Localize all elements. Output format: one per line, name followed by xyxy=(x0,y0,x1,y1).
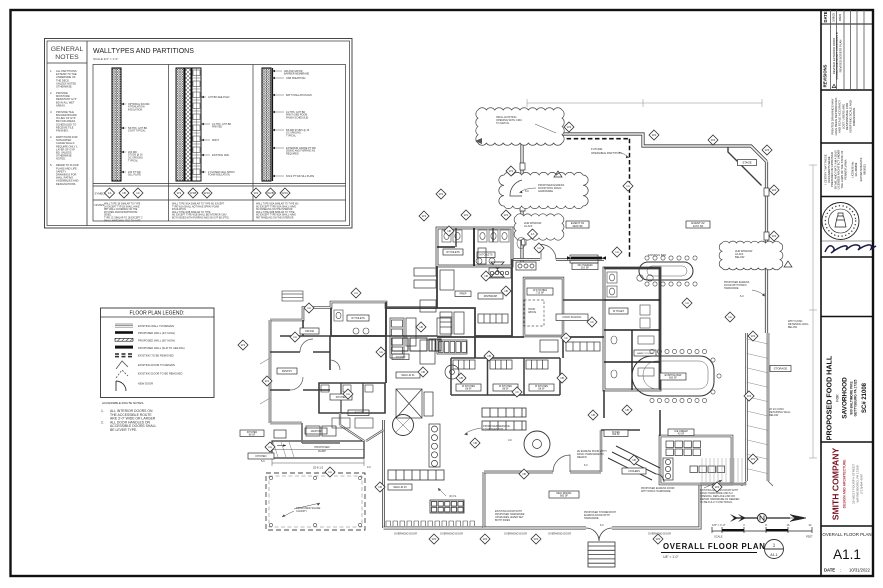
vestibule bowtie doors xyxy=(491,262,504,277)
svg-text:FINISH SCHEDULE): FINISH SCHEDULE) xyxy=(286,117,309,120)
svg-text:88 SF: 88 SF xyxy=(538,388,545,390)
svg-text:BATT INSULATION R20: BATT INSULATION R20 xyxy=(286,94,312,97)
svg-text:(3) F.S.: (3) F.S. xyxy=(449,495,457,498)
svg-text:W2B: W2B xyxy=(267,191,274,195)
svg-text:W2: W2 xyxy=(711,138,716,142)
svg-text:TYPICAL: TYPICAL xyxy=(286,135,297,138)
svg-text:3.: 3. xyxy=(50,110,52,114)
svg-text:PENNSYLVANIA: PENNSYLVANIA xyxy=(843,159,847,179)
svg-text:EXISTING CMU: EXISTING CMU xyxy=(212,154,230,157)
svg-text:PROPOSED WALL (44" HIGH): PROPOSED WALL (44" HIGH) xyxy=(138,331,175,335)
svg-text:1B: 1B xyxy=(504,289,508,293)
egress door note mid right xyxy=(724,281,750,290)
locker column xyxy=(429,424,440,467)
service counters center xyxy=(388,470,464,513)
hood dashed xyxy=(524,300,544,326)
center toilet block xyxy=(437,228,525,266)
svg-text:W2: W2 xyxy=(772,188,777,192)
exterior deck hatch xyxy=(702,458,742,482)
svg-text::: : xyxy=(840,568,841,573)
proposed ramp xyxy=(272,441,364,458)
svg-text:1A: 1A xyxy=(531,232,535,236)
svg-text:AREAS.: AREAS. xyxy=(56,103,66,107)
svg-text:1920 SF: 1920 SF xyxy=(572,224,583,228)
walkway east double wall xyxy=(745,333,748,481)
svg-text:6-0: 6-0 xyxy=(584,464,588,467)
legend: new door xyxy=(116,381,153,391)
svg-text:GYP BD SEE PLAN: GYP BD SEE PLAN xyxy=(208,96,230,99)
svg-text:1B: 1B xyxy=(473,441,477,445)
svg-text:SHALL HAVE WALL TILE TO 4 AFF: SHALL HAVE WALL TILE TO 4 AFF xyxy=(104,219,141,222)
heavy dashed existing wall line along north xyxy=(524,138,630,140)
service counters below stalls xyxy=(482,408,526,430)
svg-text:EXISTING BAR: EXISTING BAR xyxy=(648,253,666,257)
kitchen center walls xyxy=(386,266,437,308)
svg-text:PROPOSED WALL (FLR TO CEILIN: PROPOSED WALL (FLR TO CEILING) xyxy=(138,346,185,350)
wall type symbols row xyxy=(105,188,291,198)
west kitchen rooms xyxy=(302,423,340,443)
accessible route notes xyxy=(101,401,156,432)
svg-text:RAMP: RAMP xyxy=(318,449,326,453)
svg-text:6X1/2 PT WD SILL PLATE: 6X1/2 PT WD SILL PLATE xyxy=(286,175,315,178)
svg-text:BELOW: BELOW xyxy=(788,326,798,329)
wall tag diamonds xyxy=(238,122,779,544)
svg-text:1/8" = 1'-0": 1/8" = 1'-0" xyxy=(712,523,726,527)
svg-text:PANTRY: PANTRY xyxy=(282,369,293,373)
svg-text:RA-406859: RA-406859 xyxy=(854,162,858,176)
ice cream room xyxy=(660,410,732,484)
wall type detail A xyxy=(112,68,150,181)
svg-text:W1: W1 xyxy=(422,214,427,218)
svg-text:INSULATION: INSULATION xyxy=(128,109,142,112)
svg-text:713 SF: 713 SF xyxy=(536,292,545,295)
storefront double door xyxy=(586,528,612,541)
svg-text:EXISTING DOOR TO BE REMOVED: EXISTING DOOR TO BE REMOVED xyxy=(138,372,182,376)
kitchen stall block left xyxy=(319,383,385,413)
svg-text:SMITH COMPANY: SMITH COMPANY xyxy=(831,448,841,521)
certification note xyxy=(824,150,867,190)
svg-text:1A: 1A xyxy=(626,184,630,188)
svg-text:SAVORHOOD: SAVORHOOD xyxy=(842,377,849,419)
svg-text:4.: 4. xyxy=(50,135,52,139)
svg-text:WALLTYPES AND PARTITIONS: WALLTYPES AND PARTITIONS xyxy=(93,48,194,55)
svg-text:NO PANELING ON THE INTERIOR.: NO PANELING ON THE INTERIOR. xyxy=(256,208,293,211)
bottom wall with overhead doors xyxy=(384,527,587,530)
small fixtures center hall xyxy=(332,418,373,428)
svg-text:ACCESSIBLE ROUTE NOTES: ACCESSIBLE ROUTE NOTES xyxy=(102,401,143,405)
svg-text:1B: 1B xyxy=(122,191,126,195)
revision cloud: 2hr window below right xyxy=(719,241,783,270)
svg-text:FOR: FOR xyxy=(836,394,840,402)
svg-text:3/8/23: 3/8/23 xyxy=(838,13,842,21)
architect seal xyxy=(822,203,859,240)
future operable partition dashed xyxy=(629,139,631,259)
svg-text:1A: 1A xyxy=(685,301,689,305)
event labels xyxy=(566,221,589,228)
svg-text:BELOW: BELOW xyxy=(769,413,779,417)
svg-text:W1: W1 xyxy=(177,191,182,195)
svg-text:3-0: 3-0 xyxy=(508,438,512,442)
svg-text:88 SF: 88 SF xyxy=(502,388,509,390)
svg-text:2.: 2. xyxy=(101,420,104,424)
svg-text:FLOOR PLAN LEGEND:: FLOOR PLAN LEGEND: xyxy=(129,311,184,317)
svg-text:W1C: W1C xyxy=(204,191,212,195)
svg-text:OVERHEAD DOOR: OVERHEAD DOOR xyxy=(648,532,671,536)
svg-text:WALL TYPE 1B SIMILAR TO TYPE: WALL TYPE 1B SIMILAR TO TYPE xyxy=(104,203,141,206)
svg-text:BELOW: BELOW xyxy=(735,255,745,259)
svg-text:6-0: 6-0 xyxy=(740,295,744,298)
svg-text:NOTED.: NOTED. xyxy=(56,157,66,161)
stage xyxy=(728,147,762,186)
svg-text:BOTH SIDES: BOTH SIDES xyxy=(495,519,510,522)
floor plan legend box xyxy=(101,308,215,398)
kitchen equipment cluster B (center grid) xyxy=(437,318,467,379)
left block interior walls xyxy=(280,320,437,336)
svg-text:TO MATCH: TO MATCH xyxy=(496,121,509,125)
svg-text:600 SF: 600 SF xyxy=(560,495,569,498)
svg-text:W2: W2 xyxy=(751,334,756,338)
right toilet block xyxy=(604,268,660,390)
svg-text:GENERAL: GENERAL xyxy=(51,46,84,53)
svg-text:1B: 1B xyxy=(625,408,629,412)
legend: proposed wall 44 high xyxy=(115,331,175,335)
svg-text:W1: W1 xyxy=(241,343,246,347)
signature xyxy=(825,245,876,253)
svg-text:88 SF: 88 SF xyxy=(249,433,256,436)
svg-text:1A: 1A xyxy=(346,392,350,396)
svg-text:NEW DOOR: NEW DOOR xyxy=(138,381,153,385)
svg-text:W2: W2 xyxy=(567,125,572,129)
svg-text:W TOILETS: W TOILETS xyxy=(351,317,365,320)
svg-text:1A EXCEPT TYP 1B SHALL HAVE: 1A EXCEPT TYP 1B SHALL HAVE xyxy=(104,205,140,208)
svg-text:LICENSE No.: LICENSE No. xyxy=(851,161,855,178)
svg-text:WALL TYPE W1B SIMILAR TO TYPE: WALL TYPE W1B SIMILAR TO TYPE xyxy=(172,211,211,214)
svg-text:PBT PANELING ON THE INTERIOR.: PBT PANELING ON THE INTERIOR. xyxy=(256,217,294,220)
event south wall xyxy=(512,258,604,261)
svg-text:TYPE W1A SHALL NOT HAVE SPRAY: TYPE W1A SHALL NOT HAVE SPRAY FOAM xyxy=(172,205,219,208)
svg-text:DESIGNATIONS.: DESIGNATIONS. xyxy=(56,182,76,186)
svg-text:PAINTED: PAINTED xyxy=(212,126,222,129)
walk-in coolers with X xyxy=(396,389,433,418)
graphic scale bar xyxy=(712,523,813,539)
west wall of service area xyxy=(382,420,385,528)
svg-text:INSULATION.: INSULATION. xyxy=(172,208,187,211)
revisions table xyxy=(821,10,873,90)
plan title xyxy=(661,542,766,559)
east dining connection walls xyxy=(700,483,747,485)
event space north wall xyxy=(522,134,767,162)
svg-text:W2 EXCEPT TYPE W2A SHALL HAVE: W2 EXCEPT TYPE W2A SHALL HAVE xyxy=(256,205,296,208)
svg-text:A1.1: A1.1 xyxy=(833,547,861,562)
svg-text:PREP: PREP xyxy=(460,293,467,296)
svg-text:EXISTING DOOR TO REMAIN: EXISTING DOOR TO REMAIN xyxy=(138,363,175,367)
legend: existing door to be removed xyxy=(116,370,182,378)
svg-text:OVERHEAD DOOR: OVERHEAD DOOR xyxy=(504,532,527,536)
svg-text:(717)494-4087: (717)494-4087 xyxy=(860,474,864,495)
svg-text:FEET: FEET xyxy=(806,535,813,539)
svg-text:TYPE 1C SIMILAR TO 1B EXCEPT C: TYPE 1C SIMILAR TO 1B EXCEPT C xyxy=(104,217,143,220)
svg-text:W2: W2 xyxy=(483,537,488,541)
svg-text:WALL TYPE W1A SIMILAR TO TYPE: WALL TYPE W1A SIMILAR TO TYPE W1 EXCEPT xyxy=(172,203,225,206)
svg-text:BARRIER MEMBRANE: BARRIER MEMBRANE xyxy=(284,73,310,76)
svg-text:BOTH SIDES WITH FURRING AND 5/: BOTH SIDES WITH FURRING AND 5/8 GYP BD (… xyxy=(172,217,229,220)
svg-text:COUNTERS TYP: COUNTERS TYP xyxy=(483,427,504,431)
svg-text:W1: W1 xyxy=(464,213,469,217)
svg-text:W1 EXCEPT TYPE W1B SHALL BE IN: W1 EXCEPT TYPE W1B SHALL BE INTERIOR CMU xyxy=(172,214,227,217)
svg-text:COOK SCHOOL: COOK SCHOOL xyxy=(562,315,582,319)
existing bar 02 xyxy=(632,349,721,402)
svg-text:1A: 1A xyxy=(268,445,272,449)
svg-text:OFFICE: OFFICE xyxy=(305,330,314,333)
svg-text:W2: W2 xyxy=(751,457,756,461)
legend: proposed wall 60 high xyxy=(115,338,175,342)
overhead door labels xyxy=(394,532,671,536)
svg-text:STAGE: STAGE xyxy=(742,160,751,164)
svg-text:CANOPY: CANOPY xyxy=(296,509,307,513)
event space east wall xyxy=(765,162,768,334)
svg-text:PROPOSED WALL (60" HIGH): PROPOSED WALL (60" HIGH) xyxy=(138,339,175,343)
svg-text:W TOILETS: W TOILETS xyxy=(446,251,460,254)
svg-text:FINISHES.: FINISHES. xyxy=(56,129,69,133)
left block outline xyxy=(270,302,437,320)
svg-text:1B: 1B xyxy=(459,376,463,380)
svg-text:2/28/23: 2/28/23 xyxy=(831,13,835,22)
svg-text:W2 EXCEPT TYPE W2A SHALL HAVE: W2 EXCEPT TYPE W2A SHALL HAVE xyxy=(256,214,296,217)
svg-text:DIMENSIONS.: DIMENSIONS. xyxy=(852,107,856,126)
W kitchen stalls center xyxy=(451,358,560,395)
prep room walls xyxy=(385,308,387,383)
entry steps left block xyxy=(282,291,303,301)
svg-text:WALK-IN 03: WALK-IN 03 xyxy=(393,486,407,489)
svg-text:110 SF: 110 SF xyxy=(581,265,590,269)
north arrow xyxy=(730,514,806,523)
svg-text:1B: 1B xyxy=(484,274,488,278)
svg-text:WALL TYPE W2B SIMILAR TO TYPE: WALL TYPE W2B SIMILAR TO TYPE xyxy=(256,211,295,214)
shade canopy dashed xyxy=(266,473,365,530)
legend: existing door to remain xyxy=(116,361,175,369)
left block toilet room xyxy=(331,302,386,336)
legend: existing to be removed xyxy=(115,353,174,357)
svg-text:OPERABLE PARTITION: OPERABLE PARTITION xyxy=(591,151,622,155)
svg-text:1/8" = 1'-0": 1/8" = 1'-0" xyxy=(663,555,679,559)
svg-text:PROPOSED: PROPOSED xyxy=(314,445,329,449)
walltypes detail area frame xyxy=(93,65,346,222)
svg-text:SILL PLATE: SILL PLATE xyxy=(128,174,141,177)
walkway hatch ticks xyxy=(747,339,769,474)
project name block xyxy=(825,355,869,440)
svg-text:06/30/23: 06/30/23 xyxy=(863,164,867,175)
svg-text:EXISTING TO BE REMOVED: EXISTING TO BE REMOVED xyxy=(138,353,174,357)
svg-text:W2: W2 xyxy=(254,191,259,195)
interior door arcs left block xyxy=(290,339,313,390)
svg-text:1A: 1A xyxy=(307,306,311,310)
svg-text:SCALE: SCALE xyxy=(714,535,723,539)
svg-text:W TOILET: W TOILET xyxy=(613,310,625,313)
svg-text:TO BE FULLY FUNCTIONAL: TO BE FULLY FUNCTIONAL xyxy=(700,501,733,504)
svg-text:WITH PANIC HARDWARE: WITH PANIC HARDWARE xyxy=(641,490,671,493)
svg-text:42 AFF: 42 AFF xyxy=(524,224,533,228)
svg-text:PBT WALL COVERING ON THE: PBT WALL COVERING ON THE xyxy=(104,208,138,211)
svg-text:STORAGE: STORAGE xyxy=(774,366,788,370)
legend: proposed wall flr to ceiling xyxy=(115,346,185,350)
svg-text:W1: W1 xyxy=(504,213,509,217)
svg-text:HARDWARE: HARDWARE xyxy=(538,189,553,193)
pizza oven circle xyxy=(524,431,550,457)
svg-text:1B: 1B xyxy=(378,485,382,489)
svg-text:5.: 5. xyxy=(50,163,52,167)
svg-text:OVERHEAD DOOR: OVERHEAD DOOR xyxy=(548,532,571,536)
svg-text:A1.1: A1.1 xyxy=(770,553,777,557)
svg-text:88 SF: 88 SF xyxy=(465,388,472,390)
svg-text:1B: 1B xyxy=(632,458,636,462)
svg-text:1A: 1A xyxy=(328,470,332,474)
revision cloud: 2hr window xyxy=(514,214,564,240)
svg-text:43 SF: 43 SF xyxy=(678,432,685,435)
firm block (SMITH COMPANY) xyxy=(831,448,864,521)
svg-text:1B: 1B xyxy=(419,325,423,329)
svg-text:W1: W1 xyxy=(265,379,270,383)
svg-text:2.: 2. xyxy=(50,91,52,95)
kitchen south wall xyxy=(437,336,604,338)
svg-text:SIDES.: SIDES. xyxy=(104,215,112,217)
svg-text:10/31/2022: 10/31/2022 xyxy=(849,568,871,573)
dimension line top edge xyxy=(527,99,762,107)
svg-text:1A: 1A xyxy=(615,250,619,254)
svg-text:600 SF: 600 SF xyxy=(669,377,677,380)
svg-text:TYPICAL: TYPICAL xyxy=(128,160,139,163)
ramp dimension xyxy=(272,459,364,466)
svg-text:W2: W2 xyxy=(772,234,777,238)
svg-text:600 SF: 600 SF xyxy=(612,434,620,436)
extra counters west kitchen xyxy=(390,300,436,364)
general notes header xyxy=(47,46,87,63)
rail loops along bottom xyxy=(386,521,475,526)
svg-text:NOTES: NOTES xyxy=(55,54,79,61)
svg-text:1A: 1A xyxy=(354,291,358,295)
svg-text:GETTYSBURG PA 17325: GETTYSBURG PA 17325 xyxy=(854,379,858,416)
wall type notes row xyxy=(104,203,299,223)
left block west door arcs xyxy=(260,358,270,404)
svg-text:EXISTING WALL TO REMAIN: EXISTING WALL TO REMAIN xyxy=(138,324,174,328)
svg-text:REVISIONS: REVISIONS xyxy=(823,64,828,87)
svg-text:W1B: W1B xyxy=(190,191,197,195)
svg-text:1B: 1B xyxy=(487,354,491,358)
egress notes bottom right xyxy=(641,487,675,493)
svg-text:PAINT: PAINT xyxy=(212,139,219,142)
svg-text:OVERALL FLOOR PLAN: OVERALL FLOOR PLAN xyxy=(663,542,766,551)
svg-text:6-0: 6-0 xyxy=(600,524,604,527)
svg-text:REVISED EGRESS PLAN: REVISED EGRESS PLAN xyxy=(839,40,843,73)
svg-text:JOINT TYPICAL: JOINT TYPICAL xyxy=(128,130,146,133)
svg-text:5-6: 5-6 xyxy=(261,460,265,463)
svg-text:1B: 1B xyxy=(591,413,595,417)
entrance stairs xyxy=(588,542,615,567)
svg-text:1A: 1A xyxy=(293,335,297,339)
svg-text:OVERHEAD DOOR: OVERHEAD DOOR xyxy=(440,532,463,536)
revision cloud: proposed egress door xyxy=(499,172,588,208)
deli diagonal counters xyxy=(608,446,664,482)
dark equipment row y340 xyxy=(392,338,441,351)
svg-text:NOTES: NOTES xyxy=(95,203,105,207)
printed drawings note xyxy=(831,98,857,136)
svg-text:COOLERS: COOLERS xyxy=(628,470,640,473)
wall type detail C xyxy=(262,68,316,181)
svg-text:1272 SF: 1272 SF xyxy=(693,224,704,228)
revision cloud: infill existing opening xyxy=(476,108,564,146)
svg-text:W2C: W2C xyxy=(282,191,290,195)
legend: existing wall to remain xyxy=(115,324,174,328)
svg-text:4-6: 4-6 xyxy=(367,466,371,469)
svg-text:W1: W1 xyxy=(439,192,444,196)
svg-text:25-8 1/2: 25-8 1/2 xyxy=(313,466,324,470)
svg-text:KITCHEN: KITCHEN xyxy=(256,455,267,458)
svg-text:W2: W2 xyxy=(715,485,720,489)
svg-text:W2: W2 xyxy=(747,394,752,398)
svg-text:W2: W2 xyxy=(534,537,539,541)
svg-text:DESIGN AND ARCHITECTURE: DESIGN AND ARCHITECTURE xyxy=(843,459,847,508)
svg-text:DATE: DATE xyxy=(823,11,828,22)
dining area walls xyxy=(483,472,486,528)
svg-text:DISHWASH: DISHWASH xyxy=(484,295,498,298)
svg-text:SCALE 3/4" = 1'-0": SCALE 3/4" = 1'-0" xyxy=(93,57,118,61)
svg-text:FOAM INSULATION: FOAM INSULATION xyxy=(208,174,230,177)
event space west wall xyxy=(520,134,523,177)
svg-text:1B: 1B xyxy=(560,376,564,380)
title block frame xyxy=(820,10,822,576)
svg-text:1A: 1A xyxy=(537,246,541,250)
kitchen mid equipment xyxy=(440,312,508,334)
svg-text:EXPIRATION DATE: EXPIRATION DATE xyxy=(859,157,863,181)
svg-text:1A: 1A xyxy=(728,315,732,319)
equipment along event south wall xyxy=(516,262,536,270)
svg-text:REMAIN: REMAIN xyxy=(577,456,587,459)
svg-text:OSB SHEATHING: OSB SHEATHING xyxy=(286,77,306,80)
svg-text:REQUIRED: REQUIRED xyxy=(286,153,299,156)
svg-text:1A: 1A xyxy=(108,191,112,195)
svg-text:W2: W2 xyxy=(765,148,770,152)
sheet title / number xyxy=(822,532,871,573)
walltypes and partitions panel xyxy=(45,39,353,229)
drawing number bubble xyxy=(765,540,784,559)
svg-text:WALK-IN 01: WALK-IN 01 xyxy=(401,374,415,377)
general notes text xyxy=(50,69,79,186)
svg-text:W2: W2 xyxy=(656,537,661,541)
svg-text:1B: 1B xyxy=(522,472,526,476)
svg-text:OVERHEAD DOOR: OVERHEAD DOOR xyxy=(394,532,417,536)
svg-text:1B: 1B xyxy=(447,229,451,233)
walltypes header xyxy=(93,48,194,61)
svg-text:1.: 1. xyxy=(101,409,104,413)
svg-text:KITCHEN AND/OR BATHROOM: KITCHEN AND/OR BATHROOM xyxy=(104,211,137,214)
kitchen equipment cluster A (range top) xyxy=(414,248,511,290)
svg-text:WALL TYPE W2A SIMILAR TO TYPE: WALL TYPE W2A SIMILAR TO TYPE W2 xyxy=(256,203,299,206)
svg-text:HARDWARE: HARDWARE xyxy=(584,517,599,520)
svg-text:1B: 1B xyxy=(421,370,425,374)
svg-text:W2: W2 xyxy=(652,133,657,137)
svg-text:HARDWARE: HARDWARE xyxy=(724,287,739,290)
equipment row east of cook school xyxy=(540,255,600,352)
svg-text:OVERALL FLOOR PLAN: OVERALL FLOOR PLAN xyxy=(822,532,871,537)
svg-text:OTHERWISE.: OTHERWISE. xyxy=(56,85,73,89)
svg-text:W2: W2 xyxy=(432,537,437,541)
svg-text:1.: 1. xyxy=(50,69,52,73)
svg-text:SC# 21008: SC# 21008 xyxy=(862,382,868,413)
svg-text:DATE: DATE xyxy=(824,568,835,573)
svg-text:BE LEVER TYPE.: BE LEVER TYPE. xyxy=(110,428,137,432)
svg-text:W1: W1 xyxy=(509,169,514,173)
wall type detail B xyxy=(176,68,235,181)
svg-text:PROPOSED FOOD HALL: PROPOSED FOOD HALL xyxy=(825,355,834,440)
